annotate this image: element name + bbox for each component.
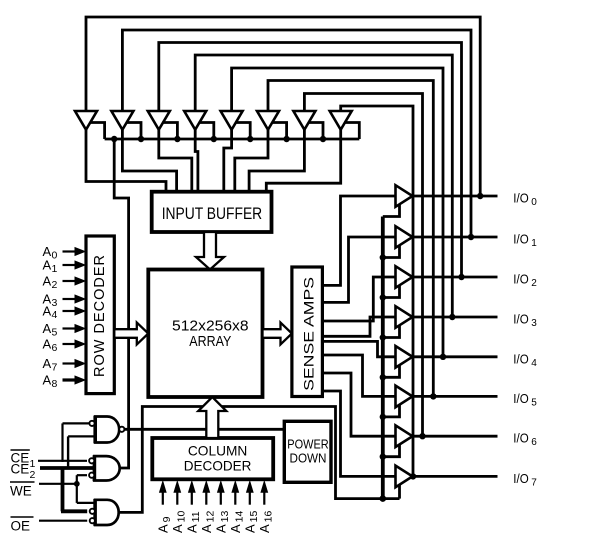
input A8 (wire, arrowhead, label) xyxy=(43,373,87,391)
svg-text:0: 0 xyxy=(52,250,58,262)
gate G1 (power-down control NAND) xyxy=(95,416,124,444)
input data buffer triangle DB6 xyxy=(293,111,315,130)
input data buffer triangle DB3 xyxy=(184,111,206,130)
wire CE2 branch to G1 xyxy=(67,436,69,469)
svg-text:512x256x8: 512x256x8 xyxy=(172,319,249,335)
svg-text:2: 2 xyxy=(531,278,537,289)
wire sense amp output 1 to buffer OB1 xyxy=(322,237,395,302)
input buffer block xyxy=(152,192,272,232)
wire DB7 output to input buffer xyxy=(266,130,340,193)
wire input-buffer enable bus xyxy=(105,138,360,141)
input A2 (wire, arrowhead, label) xyxy=(43,274,87,292)
wire DB7 enable stub xyxy=(344,123,359,140)
output buffer triangle OB5 xyxy=(396,386,413,408)
gate G1 input CE1 (bubble) xyxy=(63,421,95,426)
input A7 (wire, arrowhead, label) xyxy=(43,356,87,374)
input A9 (wire, arrowhead, label) xyxy=(156,480,174,533)
svg-text:ARRAY: ARRAY xyxy=(189,334,231,350)
input A4 (wire, arrowhead, label) xyxy=(43,304,87,322)
input A6 (wire, arrowhead, label) xyxy=(43,337,87,355)
svg-text:I/O: I/O xyxy=(513,273,529,287)
svg-text:A: A xyxy=(43,373,52,388)
svg-text:A: A xyxy=(43,337,52,352)
node enable-bus junction 5 xyxy=(247,136,253,142)
memory array block xyxy=(148,270,262,398)
node enable-bus junction 6 xyxy=(283,136,289,142)
gate G3 (output-enable gate) xyxy=(95,500,119,525)
wire I/O0 line xyxy=(413,195,498,198)
wire OB4 enable stub xyxy=(383,365,400,378)
label I/O3 xyxy=(513,313,537,330)
wire sense amp output 7 to buffer OB7 xyxy=(322,391,395,476)
svg-text:INPUT BUFFER: INPUT BUFFER xyxy=(162,205,263,223)
wire gate G1 output to power down xyxy=(124,428,284,431)
svg-text:3: 3 xyxy=(531,318,537,329)
label I/O7 xyxy=(513,472,537,489)
input A10 (wire, arrowhead, label) xyxy=(170,480,188,533)
gate G3 input WE (plain) xyxy=(77,502,95,504)
label OE (overline) xyxy=(11,517,34,534)
node OB3 enable junction xyxy=(380,334,386,340)
svg-text:8: 8 xyxy=(52,378,58,390)
node OB5 enable junction xyxy=(380,414,386,420)
svg-text:I/O: I/O xyxy=(513,313,529,327)
input A13 (wire, arrowhead, label) xyxy=(214,480,232,533)
svg-text:CE: CE xyxy=(11,462,30,477)
input data buffer triangle DB0 xyxy=(75,111,97,130)
wire I/O1 line xyxy=(413,236,498,239)
output buffer triangle OB1 xyxy=(396,226,413,248)
wire I/O5 feedback (top wrap) xyxy=(268,81,433,397)
label I/O0 xyxy=(513,192,537,209)
wire sense amp output 5 to buffer OB5 xyxy=(322,355,395,396)
node enable-bus junction 2 xyxy=(138,136,144,142)
svg-text:I/O: I/O xyxy=(513,192,529,206)
label WE (overline) xyxy=(10,482,35,499)
svg-text:7: 7 xyxy=(531,477,537,488)
wire I/O7 line xyxy=(413,475,498,478)
output buffer triangle OB6 xyxy=(396,425,413,447)
node enable-bus junction 7 xyxy=(320,136,326,142)
node I/O6 junction xyxy=(419,433,425,439)
svg-text:OE: OE xyxy=(11,519,31,534)
arrow row decoder to array xyxy=(114,323,148,345)
label I/O4 xyxy=(513,352,537,369)
wire I/O4 line xyxy=(413,355,498,358)
svg-text:4: 4 xyxy=(531,358,537,369)
svg-text:I/O: I/O xyxy=(513,352,529,366)
svg-text:7: 7 xyxy=(52,362,58,374)
wire DB2 enable stub xyxy=(162,123,177,140)
arrow array to sense amps xyxy=(263,323,292,345)
wire DB6 enable stub xyxy=(308,123,323,140)
node WE junction xyxy=(74,481,80,487)
input data buffer triangle DB4 xyxy=(221,111,243,130)
row decoder block xyxy=(86,236,114,394)
node OB1 enable junction xyxy=(380,254,386,260)
node I/O0 junction xyxy=(477,193,483,199)
wire OB0 enable stub xyxy=(383,204,400,217)
input A16 (wire, arrowhead, label) xyxy=(257,480,275,533)
wire OB6 enable stub xyxy=(383,444,400,457)
svg-text:A: A xyxy=(43,304,52,319)
wire I/O2 feedback (top wrap) xyxy=(159,43,462,278)
svg-text:4: 4 xyxy=(52,309,58,321)
input data buffer triangle DB5 xyxy=(257,111,279,130)
gate G2 input CE2 (plain, bold) xyxy=(40,466,94,470)
svg-text:A: A xyxy=(43,321,52,336)
wire I/O7 feedback (top wrap) xyxy=(341,106,413,476)
gate G3 input OE (bubble) xyxy=(39,518,95,523)
wire output-buffer enable bus xyxy=(381,217,385,499)
wire OB2 enable stub xyxy=(383,285,400,298)
arrow input buffer to array xyxy=(196,232,224,270)
output buffer triangle OB7 xyxy=(396,466,413,488)
input data buffer triangle DB7 xyxy=(330,111,352,130)
svg-text:2: 2 xyxy=(52,279,58,291)
wire sense amp output 4 to buffer OB4 xyxy=(322,341,395,356)
wire I/O4 feedback (top wrap) xyxy=(232,68,443,357)
input data buffer triangle DB2 xyxy=(148,111,170,130)
wire write-enable line (bus to gate G2) xyxy=(114,139,128,468)
svg-text:DOWN: DOWN xyxy=(290,452,327,466)
gate G2 input WE (bubble) xyxy=(77,473,94,478)
wire DB1 output to input buffer xyxy=(122,130,176,193)
arrow column decoder to array xyxy=(198,397,226,438)
label I/O2 xyxy=(513,273,537,290)
label CE1 (overline on CE) xyxy=(11,450,36,470)
wire I/O3 feedback (top wrap) xyxy=(195,55,452,317)
svg-text:I/O: I/O xyxy=(513,392,529,406)
svg-text:WE: WE xyxy=(10,484,32,499)
wire I/O5 line xyxy=(413,395,498,398)
wire CE1 branch to G1 xyxy=(61,423,63,462)
svg-text:1: 1 xyxy=(531,238,537,249)
wire WE line xyxy=(39,483,77,485)
output buffer triangle OB3 xyxy=(396,306,413,328)
wire DB4 enable stub xyxy=(235,123,250,140)
input A14 (wire, arrowhead, label) xyxy=(228,480,246,533)
node I/O4 junction xyxy=(440,354,446,360)
svg-text:ROW DECODER: ROW DECODER xyxy=(92,255,108,377)
wire I/O6 feedback (top wrap) xyxy=(304,94,422,437)
wire DB5 output to input buffer xyxy=(235,130,268,193)
svg-text:SENSE AMPS: SENSE AMPS xyxy=(300,277,316,391)
node OB2 enable junction xyxy=(380,294,386,300)
svg-text:A: A xyxy=(43,356,52,371)
node enable-bus junction 3 xyxy=(174,136,180,142)
input A5 (wire, arrowhead, label) xyxy=(43,321,87,339)
svg-text:I/O: I/O xyxy=(513,432,529,446)
wire I/O1 feedback (top wrap) xyxy=(122,30,471,237)
node I/O1 junction xyxy=(468,234,474,240)
svg-text:A: A xyxy=(43,258,52,273)
svg-text:1: 1 xyxy=(52,263,58,275)
gate G3 input CE2 (bubble, bold) xyxy=(61,509,95,514)
wire sense amp output 6 to buffer OB6 xyxy=(322,373,395,436)
output buffer triangle OB4 xyxy=(396,346,413,368)
label CE2 xyxy=(11,462,36,482)
node I/O2 junction xyxy=(458,274,464,280)
node enable-bus junction 1 xyxy=(111,136,117,142)
label I/O5 xyxy=(513,392,537,409)
wire I/O6 line xyxy=(413,435,498,438)
wire DB5 enable stub xyxy=(272,123,287,140)
svg-text:DECODER: DECODER xyxy=(184,458,252,474)
gate G2 (input-buffer enable gate) xyxy=(94,456,119,480)
wire DB3 enable stub xyxy=(199,123,214,140)
power down block xyxy=(284,421,331,482)
wire I/O2 line xyxy=(413,276,498,279)
input data buffer triangle DB1 xyxy=(111,111,133,130)
svg-text:0: 0 xyxy=(531,197,537,208)
output buffer triangle OB2 xyxy=(396,266,413,288)
wire OB3 enable stub xyxy=(383,325,400,338)
svg-text:5: 5 xyxy=(52,327,58,339)
wire I/O3 line xyxy=(413,316,498,319)
wire DB0 output to input buffer xyxy=(86,130,166,193)
svg-text:COLUMN: COLUMN xyxy=(188,443,247,459)
svg-text:6: 6 xyxy=(531,437,537,448)
output buffer triangle OB0 xyxy=(396,185,413,207)
label I/O1 xyxy=(513,233,537,250)
svg-text:3: 3 xyxy=(52,297,58,309)
wire CE2 branch to G3 (bold) xyxy=(61,468,65,511)
input A1 (wire, arrowhead, label) xyxy=(43,258,87,276)
wire DB3 output to input buffer xyxy=(195,130,198,193)
node OB6 enable junction xyxy=(380,454,386,460)
gate G2 input CE1 (bubble) xyxy=(38,458,94,463)
wire WE branches to G2 and G3 xyxy=(76,475,78,503)
wire OB5 enable stub xyxy=(383,404,400,417)
label I/O6 xyxy=(513,432,537,449)
node I/O3 junction xyxy=(449,314,455,320)
wire sense amp output 3 to buffer OB3 xyxy=(322,317,395,336)
wire DB0 enable stub xyxy=(90,123,105,140)
input A15 (wire, arrowhead, label) xyxy=(243,480,261,533)
svg-text:POWER: POWER xyxy=(287,438,328,452)
node I/O7 junction xyxy=(410,473,416,479)
wire DB4 output to input buffer xyxy=(224,130,232,193)
input A0 (wire, arrowhead, label) xyxy=(43,244,87,262)
sense amps block xyxy=(292,267,323,397)
wire sense amp output 0 to buffer OB0 xyxy=(322,196,395,285)
svg-text:A: A xyxy=(43,274,52,289)
svg-text:I/O: I/O xyxy=(513,472,529,486)
node enable bus bottom junction xyxy=(380,495,387,502)
svg-text:5: 5 xyxy=(531,397,537,408)
input A11 (wire, arrowhead, label) xyxy=(185,480,203,533)
wire I/O0 feedback (top wrap) xyxy=(86,17,480,196)
svg-text:2: 2 xyxy=(30,469,36,481)
input A3 (wire, arrowhead, label) xyxy=(43,292,87,310)
wire DB1 enable stub xyxy=(126,123,141,140)
wire DB2 output to input buffer xyxy=(159,130,192,193)
wire OB1 enable stub xyxy=(383,245,400,258)
wire sense amp output 2 to buffer OB2 xyxy=(322,277,395,321)
node I/O5 junction xyxy=(430,393,436,399)
node enable-bus junction 4 xyxy=(211,136,217,142)
wire output-enable (gate G3 to buffer enable bus) xyxy=(119,407,400,513)
wire DB6 output to input buffer xyxy=(249,130,304,193)
svg-text:I/O: I/O xyxy=(513,233,529,247)
gate G1 input CE2 (plain) xyxy=(68,435,95,437)
input A12 (wire, arrowhead, label) xyxy=(199,480,217,533)
node OB4 enable junction xyxy=(380,374,386,380)
svg-text:6: 6 xyxy=(52,342,58,354)
column decoder block xyxy=(152,438,273,479)
wire OB7 enable stub xyxy=(398,484,401,499)
